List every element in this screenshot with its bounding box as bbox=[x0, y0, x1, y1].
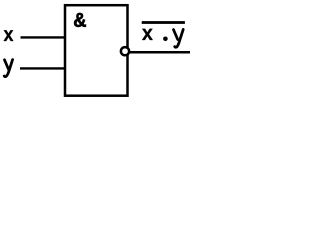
gate function label & bbox=[74, 13, 86, 27]
output label letter y bbox=[174, 29, 184, 47]
input label y bbox=[4, 60, 12, 77]
input wire y bbox=[20, 67, 66, 69]
output wire bbox=[128, 51, 190, 54]
nand gate body U1 bbox=[65, 5, 128, 96]
output label letter x bbox=[142, 29, 153, 40]
output label dot bbox=[163, 37, 168, 42]
input wire x bbox=[21, 36, 67, 38]
output inversion bubble bbox=[121, 47, 129, 55]
output label x.y overline bbox=[142, 21, 185, 24]
input label x bbox=[4, 30, 14, 41]
